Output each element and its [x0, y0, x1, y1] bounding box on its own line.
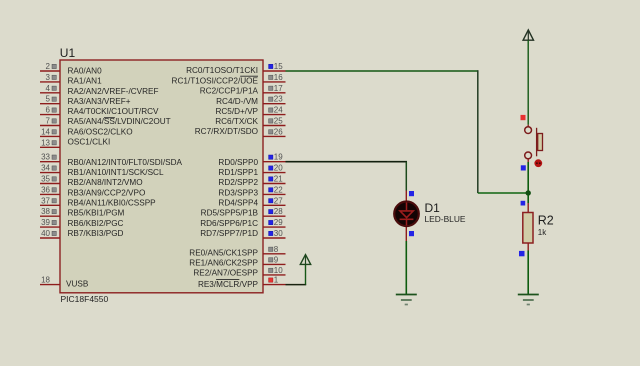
svg-text:RB3/AN9/CCP2/VPO: RB3/AN9/CCP2/VPO [68, 188, 146, 197]
svg-text:21: 21 [274, 175, 283, 184]
svg-text:38: 38 [41, 207, 50, 216]
svg-text:RC1/T1OSI/CCP2/UOE: RC1/T1OSI/CCP2/UOE [172, 76, 259, 85]
svg-text:17: 17 [274, 84, 283, 93]
svg-text:RD5/SPP5/P1B: RD5/SPP5/P1B [201, 209, 259, 218]
svg-text:RB4/AN11/KBI0/CSSPP: RB4/AN11/KBI0/CSSPP [68, 199, 157, 208]
svg-text:8: 8 [274, 245, 279, 254]
svg-text:29: 29 [274, 218, 283, 227]
svg-text:20: 20 [274, 164, 283, 173]
svg-text:22: 22 [274, 185, 283, 194]
svg-text:RA0/AN0: RA0/AN0 [68, 66, 103, 75]
svg-text:1: 1 [274, 276, 279, 285]
svg-text:RB6/KBI2/PGC: RB6/KBI2/PGC [68, 219, 124, 228]
svg-text:VUSB: VUSB [66, 280, 89, 289]
svg-text:16: 16 [274, 73, 283, 82]
svg-text:18: 18 [41, 276, 50, 285]
svg-text:RB2/AN8/INT2/VMO: RB2/AN8/INT2/VMO [68, 178, 143, 187]
svg-text:40: 40 [41, 229, 50, 238]
svg-text:10: 10 [274, 266, 283, 275]
svg-text:RA2/AN2/VREF-/CVREF: RA2/AN2/VREF-/CVREF [68, 87, 159, 96]
svg-text:34: 34 [41, 164, 50, 173]
svg-text:37: 37 [41, 196, 50, 205]
svg-text:RC0/T1OSO/T1CKI: RC0/T1OSO/T1CKI [186, 66, 258, 75]
svg-text:D1: D1 [425, 201, 441, 215]
svg-text:33: 33 [41, 153, 50, 162]
svg-text:7: 7 [46, 117, 51, 126]
svg-text:RA1/AN1: RA1/AN1 [68, 77, 103, 86]
svg-text:24: 24 [274, 106, 283, 115]
svg-text:RB7/KBI3/PGD: RB7/KBI3/PGD [68, 229, 124, 238]
svg-text:RA6/OSC2/CLKO: RA6/OSC2/CLKO [68, 127, 133, 136]
svg-text:RD2/SPP2: RD2/SPP2 [218, 178, 258, 187]
svg-text:RB0/AN12/INT0/FLT0/SDI/SDA: RB0/AN12/INT0/FLT0/SDI/SDA [68, 158, 183, 167]
svg-text:35: 35 [41, 175, 50, 184]
svg-text:RD7/SPP7/P1D: RD7/SPP7/P1D [200, 229, 258, 238]
svg-text:19: 19 [274, 153, 283, 162]
svg-text:RC6/TX/CK: RC6/TX/CK [215, 117, 258, 126]
svg-text:RD1/SPP1: RD1/SPP1 [218, 168, 258, 177]
svg-text:RE1/AN6/CK2SPP: RE1/AN6/CK2SPP [189, 259, 258, 268]
svg-text:3: 3 [46, 73, 51, 82]
svg-text:36: 36 [41, 185, 50, 194]
svg-text:4: 4 [46, 84, 51, 93]
svg-text:RC4/D-/VM: RC4/D-/VM [216, 97, 258, 106]
svg-text:13: 13 [41, 138, 50, 147]
svg-text:R2: R2 [538, 214, 554, 228]
svg-text:RA5/AN4/SS/LVDIN/C2OUT: RA5/AN4/SS/LVDIN/C2OUT [68, 117, 171, 126]
svg-text:RB5/KBI1/PGM: RB5/KBI1/PGM [68, 209, 125, 218]
svg-text:26: 26 [274, 127, 283, 136]
svg-text:23: 23 [274, 95, 283, 104]
svg-text:2: 2 [46, 62, 51, 71]
svg-text:PIC18F4550: PIC18F4550 [61, 294, 109, 304]
svg-text:RE2/AN7/OESPP: RE2/AN7/OESPP [193, 268, 258, 277]
svg-text:28: 28 [274, 207, 283, 216]
svg-text:25: 25 [274, 117, 283, 126]
svg-text:RD0/SPP0: RD0/SPP0 [218, 158, 258, 167]
svg-text:30: 30 [274, 229, 283, 238]
svg-text:15: 15 [274, 62, 283, 71]
svg-text:RA4/T0CKI/C1OUT/RCV: RA4/T0CKI/C1OUT/RCV [68, 107, 160, 116]
svg-text:RC7/RX/DT/SDO: RC7/RX/DT/SDO [195, 127, 258, 136]
svg-text:27: 27 [274, 196, 283, 205]
svg-text:RD4/SPP4: RD4/SPP4 [218, 199, 258, 208]
svg-text:6: 6 [46, 106, 51, 115]
svg-text:1k: 1k [538, 228, 547, 237]
svg-text:9: 9 [274, 255, 279, 264]
svg-text:5: 5 [46, 95, 51, 104]
svg-text:RE0/AN5/CK1SPP: RE0/AN5/CK1SPP [189, 249, 258, 258]
svg-text:U1: U1 [60, 46, 76, 60]
svg-text:RA3/AN3/VREF+: RA3/AN3/VREF+ [68, 97, 131, 106]
svg-text:OSC1/CLKI: OSC1/CLKI [68, 138, 111, 147]
svg-text:14: 14 [41, 127, 50, 136]
svg-text:RB1/AN10/INT1/SCK/SCL: RB1/AN10/INT1/SCK/SCL [68, 168, 164, 177]
svg-text:RD6/SPP6/P1C: RD6/SPP6/P1C [200, 219, 258, 228]
svg-text:RC2/CCP1/P1A: RC2/CCP1/P1A [200, 87, 259, 96]
svg-text:RC5/D+/VP: RC5/D+/VP [215, 107, 258, 116]
svg-text:RE3/MCLR/VPP: RE3/MCLR/VPP [198, 280, 259, 289]
svg-text:LED-BLUE: LED-BLUE [425, 214, 466, 224]
svg-text:RD3/SPP3: RD3/SPP3 [218, 188, 258, 197]
svg-text:39: 39 [41, 218, 50, 227]
